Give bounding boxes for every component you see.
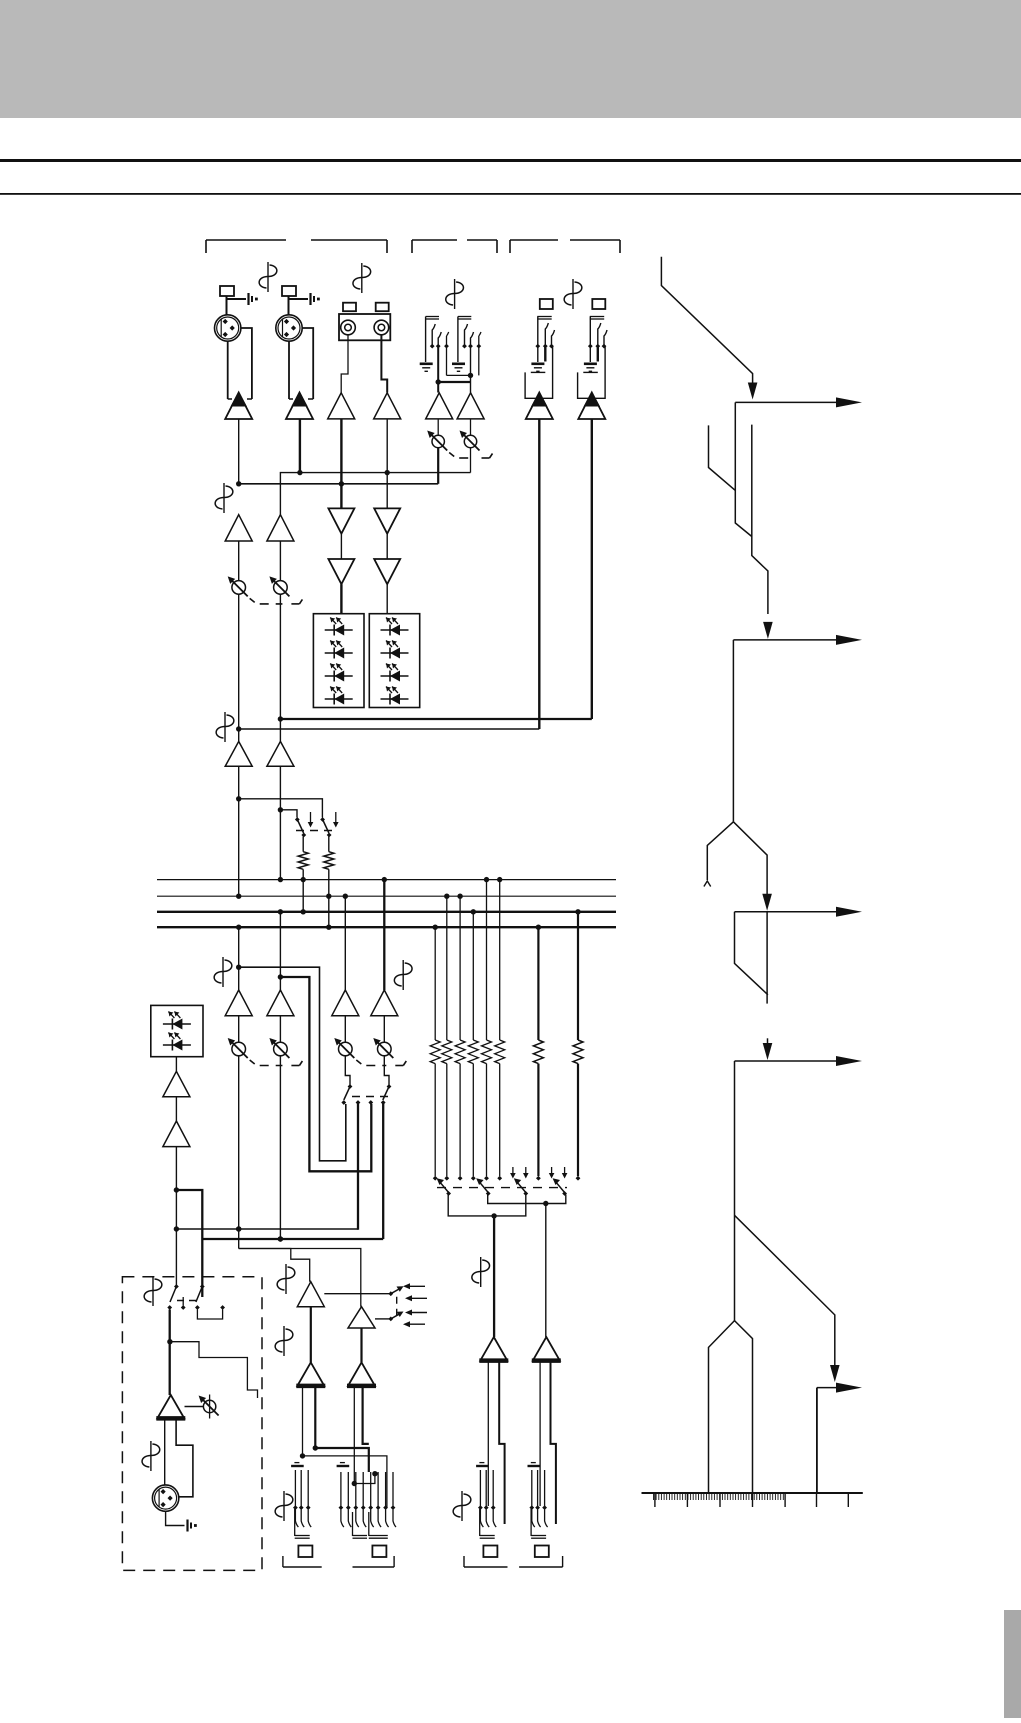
wire rowD amp to pot x384 <box>383 1016 385 1042</box>
level drop 4 <box>734 1061 736 1321</box>
monitor branch bold <box>176 1190 202 1297</box>
bus line 2 <box>157 895 616 897</box>
wire pot5 to mix wire bold <box>437 448 439 484</box>
aux switch 2 <box>320 817 325 822</box>
monitor out pair L <box>164 1418 166 1485</box>
EQ triangle ch4 second <box>374 559 400 584</box>
output jack stereo R <box>531 1462 536 1464</box>
sine test point phones 2 <box>283 1326 285 1356</box>
input amp ch7 <box>526 393 553 420</box>
wire ch1 rowC <box>238 729 240 741</box>
wire phones L <box>310 1307 312 1363</box>
junction dot ch7 return <box>236 726 241 731</box>
input amp ch5 <box>426 393 453 419</box>
junction dot ch8 return <box>278 716 283 721</box>
monitor select diamonds <box>167 1305 172 1310</box>
sine test point monitor out <box>150 1441 152 1471</box>
assign dashed link <box>437 1187 567 1189</box>
level fork left <box>707 822 733 880</box>
square label ch1 <box>220 286 234 296</box>
sine test point rowB <box>223 483 225 513</box>
monitor switch dashed link <box>177 1300 198 1302</box>
assign diamond 3 <box>458 1176 463 1181</box>
resistor out wire 2 <box>446 1064 448 1176</box>
junction dot loop ch2 <box>278 974 283 979</box>
gang link pots 5/6 <box>449 453 454 457</box>
summing resistor 7 <box>533 1040 543 1064</box>
monitor switch 1 <box>174 1284 179 1289</box>
assign stub 4 <box>564 1167 566 1174</box>
sine test point ch7/8 <box>572 279 574 309</box>
mix wire lower <box>239 483 439 485</box>
bus2 junction dot x460 <box>457 894 462 899</box>
summing resistor 1 <box>430 1040 440 1064</box>
bracket MIC/LINE inputs 1-4 <box>205 240 207 253</box>
level arrow down 5 <box>830 1365 840 1382</box>
page header gray band <box>0 0 1021 118</box>
bus2 junction dot x345 <box>343 894 348 899</box>
return wire ch8 bold <box>280 718 591 720</box>
bus4 junction dot x538 <box>536 925 541 930</box>
pot ch1 rowB <box>232 581 246 595</box>
bus line 4 bold <box>157 926 616 928</box>
stereo L wire bold <box>493 1216 495 1337</box>
loop wire XLR to amp ch2 <box>302 328 313 399</box>
assign stub 1 <box>512 1167 514 1174</box>
phones amp L <box>297 1282 324 1307</box>
bus drop wire 8 bold <box>577 912 579 1040</box>
wire jack5 to junction bold <box>437 347 439 393</box>
level arrow down 1 <box>748 383 758 400</box>
sine test point jack A <box>283 1491 285 1521</box>
junction dot monitor out <box>167 1339 172 1344</box>
wire fader3 to switch <box>345 1056 350 1085</box>
wire ch2 rowB down <box>279 594 281 719</box>
bus1 junction dot x486 <box>484 877 489 882</box>
phones link down <box>354 1474 375 1484</box>
rowC amp ch1 <box>225 741 252 766</box>
chassis ground ch2 <box>309 293 311 305</box>
output jack line L/R <box>340 1462 345 1464</box>
phones feed wire <box>239 1249 361 1307</box>
phones switch blade R <box>388 1317 393 1322</box>
mix wire upper <box>280 473 470 515</box>
input amp ch1 <box>225 393 252 420</box>
junction dot wire2 ch1 <box>236 481 241 486</box>
wire sw1 to resistor <box>302 837 304 852</box>
sine test point jack B <box>461 1491 463 1521</box>
wire RCA to amp ch3 <box>341 335 348 393</box>
bus3 junction dot x280 <box>278 909 283 914</box>
fader pot ch2 <box>274 1042 288 1056</box>
chassis ground ch1 <box>247 293 249 305</box>
wire res1 to bus <box>302 869 304 911</box>
level drop 1b <box>752 425 768 614</box>
junction dot aux ch2 <box>278 807 283 812</box>
monitor level wire bold <box>169 1310 171 1396</box>
wire ch2 to aux row <box>279 766 281 880</box>
monitor aux branch <box>170 1342 258 1398</box>
LED L4 left meter <box>325 698 353 700</box>
level arrow right 2 <box>836 635 862 645</box>
trim pot ch6 <box>464 435 476 447</box>
level arrow right 1 <box>836 397 862 407</box>
assign stub 3 <box>551 1167 553 1174</box>
loop wire ch2 bold <box>280 977 371 1171</box>
sine test point rowD right <box>402 960 404 990</box>
EQ triangle ch3 first <box>328 508 354 533</box>
monitor level pot <box>209 1395 211 1419</box>
phone jack ch8 <box>592 299 605 309</box>
phone jack ch5 <box>426 316 439 318</box>
junction dot wire1 ch2 <box>297 470 302 475</box>
wire fader4 to switch <box>384 1056 389 1085</box>
bus2 junction dot x238 <box>236 894 241 899</box>
phones out R thin <box>353 1386 355 1484</box>
monitor dashed box <box>122 1277 262 1571</box>
wire amp5 to pot <box>437 419 439 435</box>
phones switch blade L <box>388 1291 393 1296</box>
junction dot stereo B <box>543 1201 548 1206</box>
level arrow down 2 <box>763 622 773 639</box>
phones dashed link <box>396 1297 398 1317</box>
rowD amp ch4 <box>371 990 398 1016</box>
gang link fader 3/4 <box>356 1060 361 1064</box>
EQ triangle ch4 first <box>374 508 400 533</box>
wire amp7 out bold <box>538 419 540 729</box>
XLR connector ch2 <box>276 315 302 341</box>
junction dot ch5 <box>436 379 441 384</box>
phones out R bold <box>363 1386 369 1444</box>
junction dot phones link <box>372 1471 377 1476</box>
bus line 3 bold <box>157 911 616 913</box>
bus drop wire 3 <box>459 896 461 1040</box>
junction dot fader2 <box>278 1236 283 1241</box>
level out line 3 <box>735 911 844 913</box>
summing resistor 5 <box>482 1040 492 1064</box>
LED R2 right meter <box>381 652 409 654</box>
LED L3 left meter <box>325 675 353 677</box>
assign diamond 6 <box>497 1176 502 1181</box>
wire pot6 to mix wire <box>470 448 472 473</box>
wire RCA to amp ch4 bold <box>381 335 387 393</box>
LED R4 right meter <box>381 698 409 700</box>
resistor out wire 4 <box>472 1064 474 1176</box>
wire rowD amp to pot x345 <box>344 1016 346 1042</box>
wire amp2 out bold <box>299 419 301 473</box>
bus drop wire 1 <box>434 927 436 1040</box>
main R riser bold <box>382 1104 384 1240</box>
aux switch dashed link <box>296 830 334 832</box>
level drop 3 <box>766 912 768 1004</box>
aux switch 1 <box>295 817 300 822</box>
level arrow down 4 <box>767 1038 769 1047</box>
junction dot loop ch1 <box>236 965 241 970</box>
wire monitor down <box>175 1147 177 1288</box>
level arrow down 3 <box>762 894 772 911</box>
EQ switch ch4 <box>387 1084 392 1089</box>
level out line 1 <box>735 401 843 403</box>
junction dot fader1 <box>236 1226 241 1231</box>
assign blade 1 <box>438 1180 448 1192</box>
rowD amp ch2 <box>267 990 294 1016</box>
level out line 5 <box>817 1387 845 1389</box>
monitor select stub 1 <box>182 1297 184 1306</box>
bracket inputs 5-6 <box>411 240 413 253</box>
phones out L thin <box>302 1386 304 1456</box>
bus2 junction dot x328 <box>326 894 331 899</box>
bus line 1 <box>157 879 616 881</box>
wire square to XLR ch1 <box>226 296 228 315</box>
trim pot ch5 <box>432 435 444 447</box>
bus2 junction dot x446 <box>444 894 449 899</box>
bus4 junction dot x238 <box>236 925 241 930</box>
chassis ground monitor <box>186 1520 188 1532</box>
wire jack6 to junction <box>470 347 472 393</box>
phones contact arrows <box>406 1285 425 1287</box>
resistor out wire 7 bold <box>537 1064 539 1176</box>
stereo out amp R <box>533 1337 560 1361</box>
phones feed wire 2 <box>239 1249 310 1282</box>
level arrow right 4 <box>836 1056 862 1066</box>
square label ch4 <box>376 303 389 312</box>
wire EQ ch4 to meter <box>386 584 388 614</box>
phones cross wire bold <box>315 1448 369 1472</box>
bottom bracket phones <box>282 1556 284 1567</box>
assign stub 2 <box>525 1167 527 1174</box>
sine test point stereo L <box>480 1257 482 1287</box>
phone jack ch7 <box>540 299 553 309</box>
wire bus3 to rowD ch2 <box>279 912 281 990</box>
wire ch1 to aux row <box>238 766 240 895</box>
solo LED 1 <box>163 1023 191 1025</box>
return wire ch7 <box>239 728 540 730</box>
wire bus4 to rowD ch1 <box>238 927 240 990</box>
wire res2 to bus <box>328 869 330 926</box>
thin horizontal rule <box>0 193 1021 195</box>
wire ch1 rowB down <box>238 594 240 729</box>
stereo out amp L <box>480 1337 507 1361</box>
junction dot monitor 2 <box>174 1226 179 1231</box>
resistor out wire 6 <box>499 1064 501 1176</box>
input amp ch3 <box>328 393 355 419</box>
bus1 junction dot x499 <box>497 877 502 882</box>
level drop 5 <box>816 1388 818 1493</box>
level drop 2 <box>732 640 734 822</box>
wire EQ ch3 to meter bold <box>340 584 342 614</box>
wire ch2 rowB to pot <box>279 541 281 581</box>
EQ switch diamonds <box>341 1100 346 1105</box>
wire amp1 out <box>238 419 240 484</box>
resistor out wire 3 <box>459 1064 461 1176</box>
RCA jack box ch3/4 <box>339 314 390 340</box>
wire amp to pot monitor <box>185 1406 204 1408</box>
pot ch2 rowB <box>274 581 288 595</box>
junction dot aux ch1 <box>236 796 241 801</box>
fader pot ch3 <box>339 1042 353 1056</box>
stereo out L pair <box>487 1361 489 1506</box>
aux branch ch1 <box>239 799 323 818</box>
XLR connector ch1 <box>215 315 241 341</box>
bus4 junction dot x328 <box>326 925 331 930</box>
assign diamond 2 <box>444 1176 449 1181</box>
bus4 junction dot x435 <box>433 925 438 930</box>
wire ch2 rowC <box>279 719 281 741</box>
level fork right <box>733 822 767 894</box>
LED R3 right meter <box>381 675 409 677</box>
bus1 junction dot x280 <box>278 877 283 882</box>
wire amp3 out bold <box>340 419 342 509</box>
bus drop wire 5 <box>486 880 488 1040</box>
summing resistor 4 <box>468 1040 478 1064</box>
LED L1 left meter <box>325 629 353 631</box>
bus1 junction dot x303 <box>301 877 306 882</box>
LED meter box L <box>313 614 364 708</box>
input amp ch4 <box>374 393 401 419</box>
wire fader1 down <box>238 1056 240 1249</box>
junction dot monitor 1 <box>174 1187 179 1192</box>
fader pot ch1 <box>232 1042 246 1056</box>
bus drop wire 7 bold <box>537 927 539 1040</box>
level baseline <box>642 1492 863 1494</box>
bus drop wire 4 <box>472 912 474 1040</box>
bus drop wire 2 <box>446 896 448 1040</box>
level drop 1 <box>735 402 752 536</box>
phones out L bold <box>314 1386 316 1448</box>
sine test point monitor sel <box>152 1276 154 1306</box>
stereo link wire ch5/6 <box>447 374 471 376</box>
bus3 junction dot x303 <box>301 909 306 914</box>
bracket inputs 7-8 <box>509 240 511 253</box>
wire bus1 to rowD ch4 bold <box>383 880 385 990</box>
LED R1 right meter <box>381 629 409 631</box>
stereo out R pair <box>539 1361 541 1506</box>
summing resistor 3 <box>455 1040 465 1064</box>
wire solo box to amp <box>175 1057 177 1072</box>
assign blade 4 <box>554 1180 564 1192</box>
bus3 junction dot x578 <box>575 909 580 914</box>
wire square to XLR ch2 <box>288 296 290 315</box>
assign diamond 5 <box>484 1176 489 1181</box>
sine test point ch1/2 <box>267 262 269 292</box>
loop wire XLR to amp ch1 <box>241 328 252 399</box>
phones switch wire R <box>375 1318 391 1320</box>
wire XLR to chassis gnd <box>166 1511 185 1525</box>
main L riser bold <box>357 1104 359 1230</box>
resistor out wire 8 bold <box>577 1064 579 1176</box>
junction dot mains L <box>236 1226 241 1231</box>
wire EQ ch4 mid <box>386 534 388 559</box>
solo LED 2 <box>163 1044 191 1046</box>
monitor out pair R <box>176 1418 193 1496</box>
level baseline ticks <box>653 1493 655 1500</box>
aux switch 2 arrow <box>335 812 337 823</box>
junction dot phones thin <box>300 1453 305 1458</box>
wire monitor amps <box>175 1097 177 1121</box>
phones cross wire thin <box>303 1456 387 1507</box>
wire sw2 to resistor <box>328 837 330 852</box>
monitor amp 1 <box>163 1071 190 1097</box>
junction dot wire1 ch4 <box>385 470 390 475</box>
input amp ch8 <box>578 393 605 420</box>
wire amp4 out <box>386 419 388 509</box>
monitor amp 2 <box>163 1121 190 1147</box>
sine test point ch5/6 <box>454 279 456 309</box>
resistor out wire 1 <box>434 1064 436 1176</box>
sine test point phones 1 <box>285 1264 287 1294</box>
monitor out amp <box>157 1395 184 1418</box>
level out line 4 <box>735 1060 844 1062</box>
phones switch wire L <box>324 1293 391 1295</box>
loop wire ch1 bold <box>239 967 346 1161</box>
summing resistor 6 <box>495 1040 505 1064</box>
wire amp6 to pot <box>470 419 472 435</box>
aux branch ch2 <box>280 810 297 818</box>
wire phones R <box>360 1328 362 1362</box>
aux resistor 1 <box>298 852 308 870</box>
wire bus2 to rowD ch3 <box>344 896 346 990</box>
square label ch2 <box>282 286 296 296</box>
sine test point ch3/4 <box>361 263 363 293</box>
EQ triangle ch3 second <box>328 559 354 584</box>
phones driver L <box>297 1362 324 1386</box>
stereo bus B wire <box>488 1195 566 1204</box>
gang link rowB pots <box>250 598 255 602</box>
aux switch 1 arrow <box>310 812 312 823</box>
sine test point rowD left <box>222 957 224 987</box>
thick horizontal rule <box>0 159 1021 162</box>
mains wire bold <box>202 1238 383 1240</box>
rowD amp ch3 <box>332 990 359 1016</box>
XLR monitor output <box>152 1485 178 1511</box>
summing resistor 8 <box>573 1040 583 1064</box>
level arrow right 3 <box>836 907 862 917</box>
wire ch1 rowB to pot <box>238 541 240 581</box>
mains wire L <box>176 1228 358 1230</box>
gray sidebar bottom right <box>1004 1610 1021 1718</box>
EQ switch ch3 <box>348 1084 353 1089</box>
rowD amp ch1 <box>225 990 252 1016</box>
sine test point return row <box>224 712 226 742</box>
level line input <box>661 257 752 385</box>
junction dot wire2 ch3 <box>339 481 344 486</box>
wire fader2 down <box>279 1056 281 1239</box>
line amp ch1 rowB <box>225 515 252 541</box>
phone jack ch6 <box>458 316 471 318</box>
level arrow right 5 <box>836 1383 862 1393</box>
aux resistor 2 <box>324 852 334 870</box>
fader pot ch4 <box>378 1042 392 1056</box>
input amp ch2 <box>286 393 313 420</box>
phones amp R <box>348 1307 375 1328</box>
monitor switch 2 <box>200 1284 205 1289</box>
bus drop wire 6 <box>499 880 501 1040</box>
EQ switch dashed link <box>352 1096 390 1098</box>
wire rowD amp to pot x280 <box>279 1016 281 1042</box>
junction dot ch6 <box>468 373 473 378</box>
junction dot phones R <box>352 1481 357 1486</box>
wire rowD amp to pot x238 <box>238 1016 240 1042</box>
phones driver R <box>348 1362 375 1386</box>
assign lower diamonds <box>446 1191 451 1196</box>
assign diamond 8 <box>576 1176 581 1181</box>
wire amp8 out bold <box>591 419 593 719</box>
input amp ch6 <box>457 393 484 419</box>
solo LED box <box>151 1005 203 1056</box>
resistor out wire 5 <box>486 1064 488 1176</box>
rowC amp ch2 <box>267 741 294 766</box>
assign blade 3 <box>516 1180 526 1192</box>
